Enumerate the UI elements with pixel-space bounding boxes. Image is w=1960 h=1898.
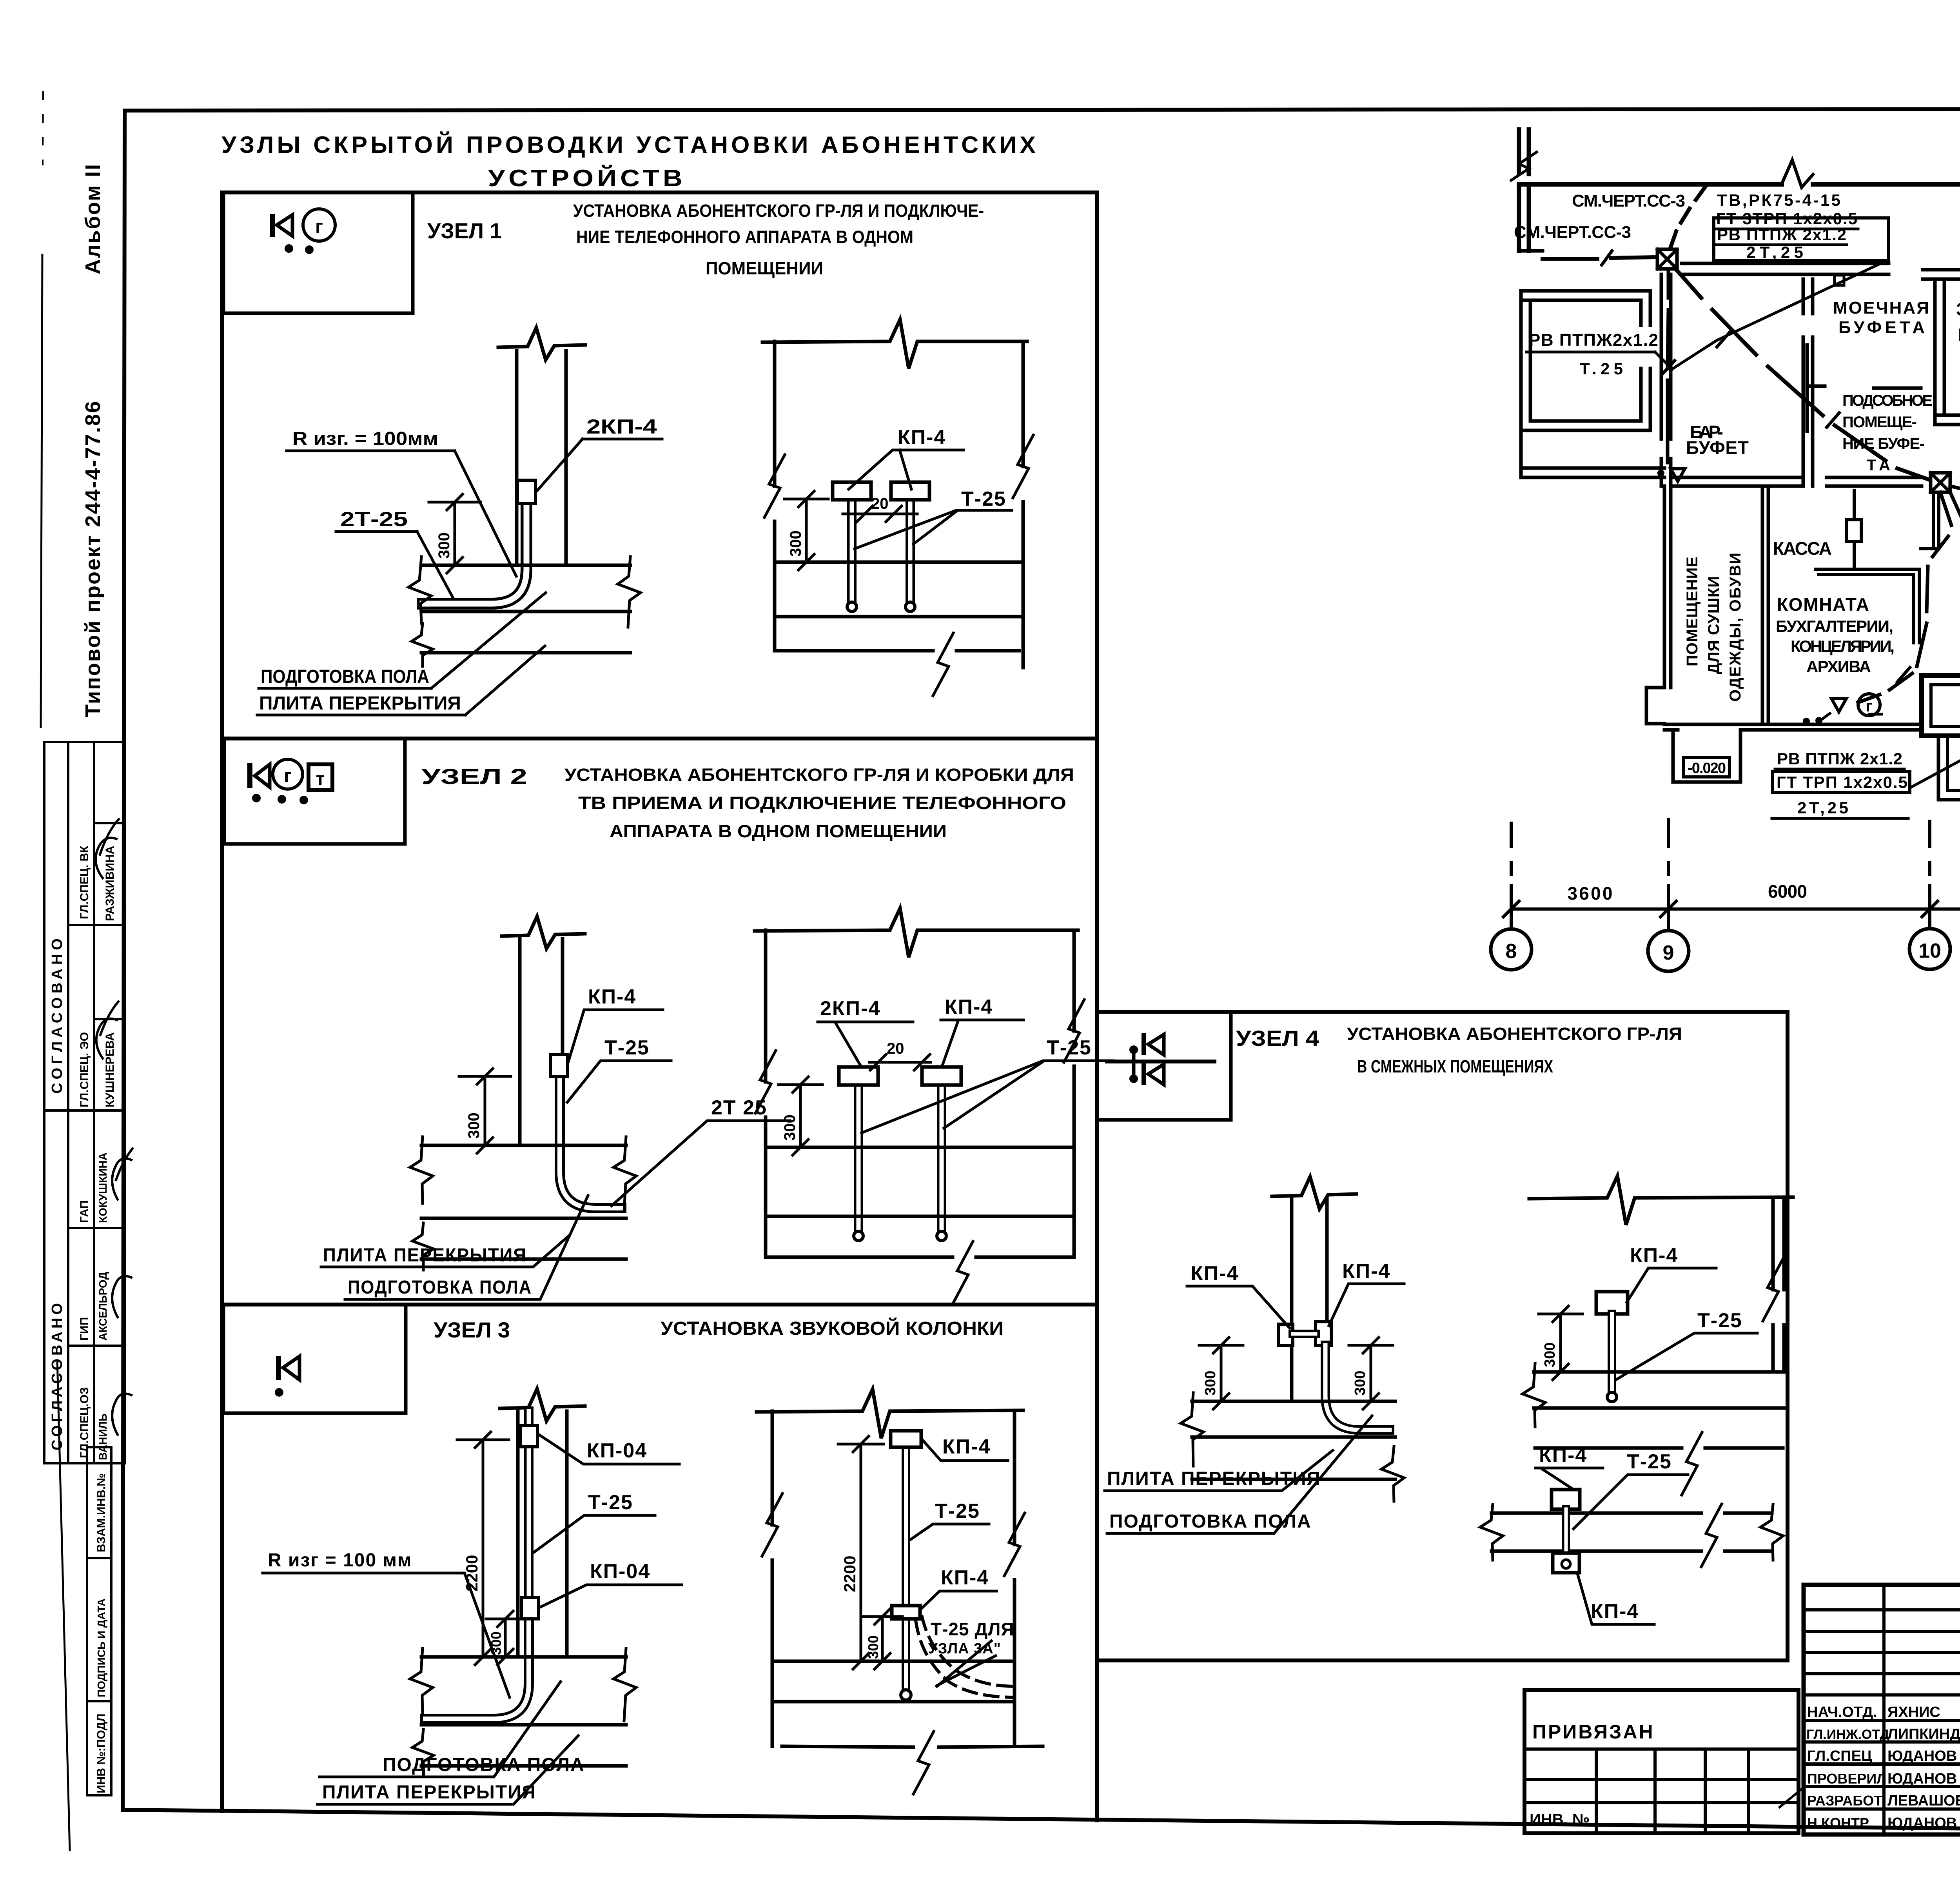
left porch (1673, 730, 1740, 782)
node3 symbol dot (275, 1388, 283, 1397)
svg-text:Т-25: Т-25 (604, 1036, 650, 1059)
svg-text:2КП-4: 2КП-4 (820, 997, 880, 1020)
conduit bend into floor (1325, 1345, 1390, 1430)
svg-text:ЛЕВАШОВА: ЛЕВАШОВА (1887, 1793, 1960, 1809)
svg-text:300: 300 (1542, 1343, 1558, 1367)
leader KP-4 lower (920, 1591, 996, 1609)
floor layer line (421, 1217, 626, 1220)
svg-text:ПОМЕЩЕНИЕ: ПОМЕЩЕНИЕ (1684, 557, 1701, 666)
node2 symbol: circled g (273, 759, 303, 789)
ticks (1503, 901, 1519, 917)
svg-text:ЮДАНОВ: ЮДАНОВ (1887, 1771, 1957, 1787)
svg-text:Альбом II: Альбом II (81, 163, 105, 274)
wall left line with break (771, 1411, 774, 1746)
extension lines (1510, 823, 1513, 929)
floor top line (766, 1146, 1074, 1149)
conduit T-25 (560, 1076, 621, 1208)
svg-text:ГТ ТРП 1х2х0.5: ГТ ТРП 1х2х0.5 (1777, 773, 1907, 791)
slab bottom line (421, 1764, 626, 1768)
wall left line with break (764, 930, 768, 1257)
top exterior wall (1519, 182, 1960, 187)
diagonal cable box1 to box2 (1677, 270, 1931, 480)
svg-text:ГЛ.СПЕЦ. ЭО: ГЛ.СПЕЦ. ЭО (78, 1032, 91, 1107)
svg-text:2Т-25: 2Т-25 (340, 508, 408, 531)
svg-text:ПОДГОТОВКА ПОЛА: ПОДГОТОВКА ПОЛА (348, 1277, 532, 1298)
-0.020 boxes (1684, 757, 1730, 777)
svg-text:ПЛИТА ПЕРЕКРЫТИЯ: ПЛИТА ПЕРЕКРЫТИЯ (322, 1782, 536, 1803)
leader KP-4 right (1329, 1284, 1404, 1326)
svg-text:2200: 2200 (463, 1555, 481, 1591)
svg-text:КОКУШКИНА: КОКУШКИНА (97, 1152, 109, 1223)
dim 20 (843, 513, 917, 515)
wall (515, 351, 519, 565)
dim 300 (805, 499, 808, 562)
svg-text:НИЕ БУФЕ-: НИЕ БУФЕ- (1842, 435, 1925, 452)
node4 symbol box (1097, 1012, 1231, 1120)
svg-text:УСТАНОВКА АБОНЕНТСКОГО ГР-ЛЯ: УСТАНОВКА АБОНЕНТСКОГО ГР-ЛЯ (1347, 1024, 1682, 1044)
middle break (1701, 1504, 1722, 1567)
inner partition mo-echnaya (1807, 345, 1825, 431)
left sheet edge thin line upper (41, 255, 42, 727)
svg-text:ЭЛЕКТРО-: ЭЛЕКТРО- (1956, 299, 1960, 319)
wall (1290, 1198, 1294, 1401)
svg-text:ПОДСОБНОЕ: ПОДСОБНОЕ (1842, 392, 1933, 409)
svg-text:ПРИВЯЗАН: ПРИВЯЗАН (1532, 1721, 1655, 1743)
svg-text:8: 8 (1506, 940, 1517, 963)
svg-text:ПОМЕЩЕНИИ: ПОМЕЩЕНИИ (706, 258, 823, 278)
dim 2200 (482, 1440, 485, 1657)
cable box2 to kabinet junction (1950, 492, 1960, 708)
left floor break (1523, 1363, 1545, 1427)
left floor break (408, 557, 431, 623)
svg-text:УЗЕЛ 1: УЗЕЛ 1 (427, 218, 502, 243)
svg-text:ЛИПКИНД: ЛИПКИНД (1887, 1726, 1960, 1742)
right break (1760, 1504, 1783, 1560)
leader KP-4 (849, 450, 964, 489)
main stamp outer (1804, 1585, 1960, 1834)
left floor break (1181, 1393, 1203, 1466)
svg-text:НАЧ.ОТД.: НАЧ.ОТД. (1807, 1704, 1877, 1720)
conduit right (906, 499, 915, 606)
svg-text:ПОДПИСЬ И ДАТА: ПОДПИСЬ И ДАТА (95, 1599, 107, 1697)
junction box 1 (1657, 249, 1677, 269)
wall right line (1022, 341, 1025, 668)
floor top line (421, 1655, 626, 1659)
floor top line (772, 1660, 1014, 1663)
leader plita (465, 646, 545, 715)
svg-text:R изг. = 100мм: R изг. = 100мм (292, 428, 438, 449)
T-25 stub (1562, 1509, 1570, 1553)
right lower break (1381, 1446, 1404, 1501)
svg-text:СМ.ЧЕРТ.СС-3: СМ.ЧЕРТ.СС-3 (1514, 223, 1632, 242)
svg-text:300: 300 (865, 1635, 881, 1659)
KP-4 box left (833, 482, 871, 500)
svg-text:ЮДАНОВ: ЮДАНОВ (1887, 1748, 1957, 1764)
leader 2T25 (612, 1121, 790, 1206)
svg-text:ГЛ.СПЕЦ.ОЗ: ГЛ.СПЕЦ.ОЗ (78, 1387, 91, 1458)
leader 2T-25 (417, 532, 453, 597)
svg-text:НИЕ ТЕЛЕФОННОГО АППАРАТА В ОДН: НИЕ ТЕЛЕФОННОГО АППАРАТА В ОДНОМ (576, 227, 913, 247)
svg-text:ЯХНИС: ЯХНИС (1887, 1704, 1940, 1720)
svg-text:6000: 6000 (1768, 881, 1807, 902)
svg-text:ВЗАМ.ИНВ.№: ВЗАМ.ИНВ.№ (95, 1473, 108, 1552)
KP-04 coupling lower (521, 1598, 539, 1619)
svg-text:КАССА: КАССА (1773, 538, 1832, 559)
inv table narrow box (87, 1447, 111, 1795)
dim 300 right (1370, 1345, 1372, 1401)
svg-text:ИНВ. №: ИНВ. № (1530, 1811, 1590, 1828)
horizontal cable run left of box1 (1543, 257, 1656, 259)
node4 symbol (1107, 1060, 1214, 1063)
svg-text:300: 300 (488, 1631, 504, 1655)
attachment table left of stamp (1524, 1690, 1798, 1833)
wall top cap with break (498, 328, 585, 360)
dim 300 (881, 1617, 884, 1661)
KP-4 box top (891, 1431, 921, 1447)
right floor break (618, 557, 641, 627)
svg-text:УСТАНОВКА АБОНЕНТСКОГО ГР-ЛЯ И: УСТАНОВКА АБОНЕНТСКОГО ГР-ЛЯ И КОРОБКИ Д… (564, 765, 1074, 785)
right wall (1771, 1198, 1775, 1372)
floor top line (421, 564, 630, 567)
slab top line with breaks (1492, 1512, 1772, 1515)
floor top line (421, 1144, 626, 1147)
rooms top wall upper line (1923, 268, 1960, 272)
left exterior wall (1664, 486, 1671, 688)
door marker on corridor wall (1835, 275, 1844, 285)
KP-4 box (922, 1067, 961, 1085)
svg-text:ТВ ПРИЕМА И ПОДКЛЮЧЕНИЕ ТЕЛЕФО: ТВ ПРИЕМА И ПОДКЛЮЧЕНИЕ ТЕЛЕФОННОГО (578, 793, 1066, 813)
floor layer line (766, 1215, 1074, 1218)
floor layer line (775, 615, 1023, 619)
KP-4 box right (891, 482, 929, 500)
svg-text:КП-04: КП-04 (587, 1439, 647, 1462)
svg-text:-0.020: -0.020 (1688, 760, 1726, 777)
leader from label box to cable (1673, 260, 1887, 368)
svg-text:Н.КОНТР.: Н.КОНТР. (1807, 1815, 1871, 1831)
leader T-25 (567, 1061, 671, 1102)
svg-text:КП-04: КП-04 (590, 1560, 650, 1583)
slab bottom line (421, 1257, 626, 1261)
svg-text:КП-4: КП-4 (941, 1566, 989, 1589)
wall (516, 1411, 520, 1657)
svg-text:9: 9 (1663, 942, 1674, 964)
KP-4 box bottom (1553, 1553, 1579, 1573)
leader plita (321, 1236, 569, 1267)
svg-text:БУХГАЛТЕРИИ,: БУХГАЛТЕРИИ, (1776, 617, 1893, 635)
device near kassa bottom (1869, 713, 1882, 716)
attachment grid columns (1882, 1585, 1886, 1834)
svg-text:Типовой проект 244-4-77.86: Типовой проект 244-4-77.86 (81, 400, 105, 717)
svg-text:ПЛИТА ПЕРЕКРЫТИЯ: ПЛИТА ПЕРЕКРЫТИЯ (259, 693, 461, 714)
slab bottom line with break (776, 649, 1019, 653)
svg-text:КУШНЕРЕВА: КУШНЕРЕВА (103, 1032, 116, 1107)
wall top cap with break (502, 916, 585, 949)
KP-04 coupling upper (520, 1426, 537, 1447)
svg-text:2Т,25: 2Т,25 (1797, 798, 1848, 817)
dim 300 (799, 1085, 802, 1147)
leader KP-4 (942, 1020, 1024, 1065)
svg-text:20: 20 (887, 1040, 904, 1057)
riser from box1 down (1668, 269, 1668, 463)
slab bottom line with break (1535, 1446, 1783, 1450)
KP-4 coupling (550, 1054, 568, 1076)
leader podgotovka (431, 593, 546, 688)
node2 symbol box (224, 739, 405, 844)
svg-text:Т-25: Т-25 (961, 488, 1006, 510)
slab bottom line with break (767, 1256, 1073, 1259)
svg-text:300: 300 (1352, 1371, 1368, 1395)
conduit right (937, 1085, 946, 1235)
node2 symbol dots (252, 794, 261, 802)
through-wall connector (1293, 1330, 1316, 1338)
dim 20 (869, 1061, 931, 1064)
leader KP-04 lower (540, 1585, 682, 1607)
left lower break (412, 1729, 434, 1776)
wall left line (773, 341, 777, 651)
svg-text:г: г (315, 216, 323, 237)
svg-text:ОДЕЖДЫ, ОБУВИ: ОДЕЖДЫ, ОБУВИ (1727, 553, 1744, 702)
slab bottom line with break (782, 1746, 1043, 1747)
bar storage room walls (1521, 291, 1650, 300)
left pilaster (1646, 688, 1664, 724)
node1 symbol: loudspeaker (270, 214, 275, 237)
svg-text:2Т,25: 2Т,25 (1746, 243, 1803, 261)
dim 300 (1559, 1314, 1562, 1372)
svg-text:ГЛ.ИНЖ.ОТД: ГЛ.ИНЖ.ОТД (1806, 1727, 1889, 1742)
conduit bend into floor (425, 1615, 529, 1719)
svg-text:ПОДГОТОВКА ПОЛА: ПОДГОТОВКА ПОЛА (383, 1755, 585, 1775)
svg-text:300: 300 (436, 532, 453, 559)
dim 300 (504, 1619, 507, 1657)
dim 300 left (1220, 1345, 1223, 1401)
node1 symbol: circled g (303, 209, 335, 241)
svg-text:УСТАНОВКА АБОНЕНТСКОГО ГР-ЛЯ И: УСТАНОВКА АБОНЕНТСКОГО ГР-ЛЯ И ПОДКЛЮЧЕ- (573, 201, 984, 221)
svg-text:В СМЕЖНЫХ ПОМЕЩЕНИЯХ: В СМЕЖНЫХ ПОМЕЩЕНИЯХ (1357, 1056, 1553, 1076)
left break (1480, 1504, 1503, 1560)
svg-text:ПОДГОТОВКА ПОЛА: ПОДГОТОВКА ПОЛА (261, 666, 429, 687)
svg-text:АРХИВА: АРХИВА (1806, 657, 1871, 676)
leader KP-4 top (1535, 1468, 1571, 1488)
2KP-4 box (839, 1067, 878, 1085)
electro room walls (1935, 279, 1960, 425)
node1 symbol box (223, 192, 413, 313)
svg-text:УЗЛЫ СКРЫТОЙ ПРОВОДКИ УСТАН: УЗЛЫ СКРЫТОЙ ПРОВОДКИ УСТАНОВКИ АБОНЕНТС… (221, 132, 1039, 158)
leader KP-4 left (1187, 1286, 1290, 1328)
slab bottom line (421, 651, 630, 655)
conduit (1608, 1314, 1616, 1395)
svg-text:2200: 2200 (840, 1556, 859, 1592)
wall top cap with break (500, 1389, 585, 1421)
grid circles (1491, 929, 1532, 970)
wall right break (1013, 435, 1033, 498)
leader podgotovka (345, 1196, 588, 1299)
kassa partition (1762, 486, 1768, 724)
leader KP-4 top (922, 1439, 1008, 1461)
node3 symbol box (223, 1305, 406, 1413)
leader KP-4 (1627, 1268, 1716, 1302)
floor top line (775, 561, 1023, 564)
svg-text:УЗЕЛ 4: УЗЕЛ 4 (1236, 1026, 1319, 1051)
svg-text:Т-25: Т-25 (1047, 1036, 1092, 1059)
floor layer line (421, 1723, 626, 1727)
wall top line with break (762, 319, 1027, 368)
wall (518, 939, 522, 1145)
svg-text:Т-25: Т-25 (935, 1500, 980, 1522)
svg-text:ГИП: ГИП (78, 1317, 91, 1341)
svg-text:ПЛИТА ПЕРЕКРЫТИЯ: ПЛИТА ПЕРЕКРЫТИЯ (1107, 1468, 1321, 1489)
leader podgotovka (319, 1682, 561, 1777)
bottom wall left section (1664, 724, 1922, 730)
leader plita (1105, 1450, 1333, 1491)
leader R izg (263, 1573, 510, 1697)
svg-text:АКСЕЛЬРОД: АКСЕЛЬРОД (97, 1272, 109, 1341)
svg-text:РВ ПТПЖ2х1.2: РВ ПТПЖ2х1.2 (1529, 330, 1658, 350)
node4 area box (1097, 1012, 1788, 1660)
svg-text:10: 10 (1918, 940, 1941, 962)
wall top line with break (755, 908, 1078, 957)
leader KP-04 upper (539, 1435, 679, 1464)
svg-text:СОГЛАСОВАНО: СОГЛАСОВАНО (49, 1300, 65, 1450)
leader R izg (455, 451, 516, 576)
svg-text:300: 300 (781, 1114, 799, 1141)
leader KP-4 (568, 1010, 663, 1062)
svg-text:РВ ПТПЖ 2х1.2: РВ ПТПЖ 2х1.2 (1777, 749, 1902, 768)
svg-text:Т.25: Т.25 (1580, 359, 1623, 378)
leader from bottom label block (1910, 731, 1960, 788)
left floor break (410, 1648, 433, 1715)
svg-text:ВАНИЛЬ: ВАНИЛЬ (97, 1414, 109, 1460)
svg-text:300: 300 (787, 530, 804, 557)
svg-text:КОНЦЕЛЯРИИ,: КОНЦЕЛЯРИИ, (1791, 637, 1895, 655)
telephone device near kassa (1671, 469, 1685, 481)
moechnaya left wall (1803, 279, 1813, 486)
central porch bump (1922, 675, 1960, 736)
svg-text:СОГЛАСОВАНО: СОГЛАСОВАНО (49, 934, 65, 1094)
svg-text:ПЛИТА ПЕРЕКРЫТИЯ: ПЛИТА ПЕРЕКРЫТИЯ (323, 1245, 527, 1266)
svg-text:УЗЕЛ 3: УЗЕЛ 3 (434, 1317, 510, 1342)
svg-text:ГЛ.СПЕЦ: ГЛ.СПЕЦ (1807, 1748, 1872, 1764)
conduit left (847, 499, 857, 606)
bar corridor wall (1661, 274, 1671, 439)
floor layer line (772, 1700, 1014, 1704)
attachment grid rows (left part) (1804, 1608, 1960, 1611)
node2 symbol: boxed t (309, 764, 332, 790)
leader 2KP-4 (818, 1022, 860, 1065)
wall right line with break (1013, 1411, 1016, 1746)
conduit T-25 riser (524, 1411, 534, 1623)
svg-text:КП-4: КП-4 (588, 985, 636, 1008)
node1 symbol dots (285, 244, 293, 253)
node column outline (220, 192, 224, 1811)
leader T-25 (910, 1524, 989, 1540)
svg-text:т: т (316, 768, 325, 789)
svg-text:ГАП: ГАП (78, 1200, 91, 1223)
svg-text:УСТАНОВКА ЗВУКОВОЙ КОЛОНКИ: УСТАНОВКА ЗВУКОВОЙ КОЛОНКИ (661, 1317, 1004, 1339)
floor layer line (421, 610, 630, 613)
dim 2200 (860, 1444, 862, 1661)
svg-text:РВ ПТПЖ 2х1.2: РВ ПТПЖ 2х1.2 (1717, 225, 1846, 244)
leader KP-4 bottom (1577, 1573, 1654, 1624)
svg-text:ДЛЯ СУШКИ: ДЛЯ СУШКИ (1705, 576, 1722, 674)
svg-text:КП-4: КП-4 (1191, 1262, 1239, 1285)
conduit left (854, 1085, 863, 1235)
svg-text:Т-25: Т-25 (588, 1491, 633, 1514)
left lower break (412, 1223, 434, 1270)
leader T-25 (1616, 1333, 1757, 1380)
wall top line with break (757, 1389, 1023, 1438)
svg-text:R изг = 100 мм: R изг = 100 мм (268, 1550, 412, 1571)
svg-text:КП-4: КП-4 (1342, 1260, 1390, 1283)
svg-text:РАЗРАБОТ: РАЗРАБОТ (1807, 1793, 1882, 1809)
rooms top wall lower line (1923, 278, 1960, 281)
corridor wall band upper line (1682, 262, 1889, 265)
signature scribbles left stamp (96, 819, 119, 878)
KP-4 box top (1552, 1490, 1580, 1509)
svg-text:ГЛ.СПЕЦ. ВК: ГЛ.СПЕЦ. ВК (78, 846, 91, 919)
svg-text:БУФЕТ: БУФЕТ (1686, 437, 1749, 458)
T-25 conduit hanging (902, 1446, 910, 1693)
kassa inner wall (1815, 569, 1919, 643)
wall left break (764, 455, 785, 517)
leader podgotovka (1107, 1416, 1372, 1533)
svg-text:СМ.ЧЕРТ.СС-3: СМ.ЧЕРТ.СС-3 (1572, 191, 1686, 210)
svg-text:КП-4: КП-4 (942, 1435, 991, 1458)
leader 2KP-4 (537, 439, 583, 491)
junction box 2 (1931, 473, 1950, 492)
svg-text:2КП-4: 2КП-4 (586, 416, 657, 438)
svg-text:КОМНАТА: КОМНАТА (1777, 594, 1869, 615)
signature scribbles (1780, 1709, 1960, 1829)
svg-text:АППАРАТА В ОДНОМ ПОМЕЩЕНИИ: АППАРАТА В ОДНОМ ПОМЕЩЕНИИ (610, 821, 947, 841)
agreement table 2 (44, 1110, 125, 1463)
svg-text:КП-4: КП-4 (1630, 1244, 1678, 1267)
KP-4 box lower (892, 1606, 920, 1619)
floor top line (1192, 1400, 1395, 1403)
floor layer line (1192, 1435, 1395, 1439)
KP-4 box (1596, 1292, 1628, 1314)
agreement table 1 (44, 742, 125, 1110)
svg-text:ЮДАНОВ: ЮДАНОВ (1887, 1815, 1957, 1831)
break in top wall (1782, 160, 1813, 187)
svg-text:РАЗЖИВИНА: РАЗЖИВИНА (103, 846, 116, 921)
svg-text:КП-4: КП-4 (1591, 1600, 1639, 1623)
svg-text:20: 20 (871, 495, 889, 512)
left sheet edge thin line lower (57, 1360, 70, 1850)
slab bottom line (1192, 1478, 1395, 1481)
node2 symbol: loudspeaker (247, 763, 252, 788)
ceiling line with break (1529, 1176, 1793, 1225)
leader T-25 (862, 1061, 1114, 1133)
dimension line (1511, 907, 1960, 911)
left floor break (410, 1137, 433, 1203)
svg-text:УЗЛА 3А": УЗЛА 3А" (928, 1640, 1001, 1657)
riser in kassa (1853, 491, 1856, 569)
svg-text:г: г (1866, 698, 1873, 715)
svg-text:ПРОВЕРИЛ: ПРОВЕРИЛ (1807, 1771, 1887, 1787)
conduit 2T-25 (423, 503, 526, 604)
cable box2 to device g (1858, 492, 1951, 702)
leader T-25 (855, 510, 1012, 549)
top-left wall stub going up (1519, 129, 1529, 251)
leader plita (318, 1736, 578, 1804)
svg-text:300: 300 (1202, 1371, 1219, 1395)
svg-text:ИНВ №:ПОДЛ: ИНВ №:ПОДЛ (95, 1713, 108, 1793)
svg-text:КП-4: КП-4 (898, 426, 946, 449)
svg-text:300: 300 (465, 1112, 483, 1139)
svg-text:УСТРОЙСТВ: УСТРОЙСТВ (488, 165, 686, 191)
svg-text:г: г (284, 766, 292, 786)
cable from top wall to box1 (1671, 186, 1706, 247)
